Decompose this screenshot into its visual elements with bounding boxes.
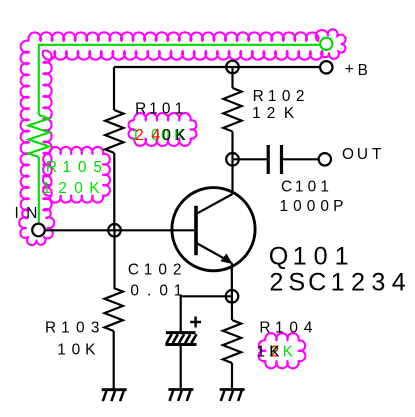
highlight cloud around 1K value <box>259 333 306 368</box>
resistor R102 body <box>223 88 241 132</box>
terminal top right green <box>320 38 332 50</box>
resistor R104 body <box>223 320 241 363</box>
svg-text:N: N <box>26 205 37 222</box>
wire R102 top <box>231 67 233 88</box>
terminal OUT <box>319 153 331 165</box>
wire base junction to R103 <box>113 230 115 288</box>
bypass cap bottom plate <box>165 343 196 346</box>
terminal +B <box>320 61 332 73</box>
svg-text:10K: 10K <box>57 341 96 358</box>
wire bypass cap to ground <box>180 346 182 390</box>
bypass cap plus sign <box>190 317 201 328</box>
wire green top horizontal <box>39 44 320 46</box>
ground under R103 <box>102 388 127 391</box>
wire +B rail <box>114 66 320 68</box>
wire R101 bottom <box>113 153 115 230</box>
svg-text:B: B <box>358 62 368 79</box>
capacitor C101 plate left <box>267 145 270 174</box>
svg-text:1: 1 <box>257 344 266 361</box>
node base junction <box>108 224 121 237</box>
wire emitter diagonal <box>197 244 231 263</box>
wire IN to base <box>45 229 194 231</box>
svg-text:2SC1234: 2SC1234 <box>269 268 405 296</box>
wire emitter vertical <box>231 263 233 321</box>
highlight cloud around 240K value <box>129 113 197 146</box>
bypass cap top plate <box>166 331 196 334</box>
wire collector diagonal <box>197 194 232 213</box>
wire R102 to collector node <box>231 132 233 195</box>
svg-text:I: I <box>14 205 18 222</box>
wire C101 to OUT <box>283 158 319 160</box>
wire R103 to ground <box>113 331 115 390</box>
ground under bypass cap <box>168 388 193 391</box>
wire green left vertical lower <box>38 157 40 224</box>
node collector junction <box>226 153 239 166</box>
svg-text:12K: 12K <box>252 105 295 122</box>
ground under R104 <box>220 388 245 391</box>
transistor emitter arrowhead <box>221 254 231 263</box>
svg-text:K: K <box>269 344 280 361</box>
highlight cloud around added wire net <box>19 29 345 245</box>
resistor R105 body <box>28 115 49 157</box>
wire green left vertical upper <box>38 44 40 115</box>
resistor R103 body <box>105 288 123 331</box>
highlight cloud around R105 labels <box>43 147 110 203</box>
wire collector node to C101 <box>233 158 267 160</box>
node junction on +B rail <box>226 61 239 74</box>
bypass cap hatched plate <box>167 334 172 343</box>
terminal IN <box>32 224 45 237</box>
svg-text:K: K <box>283 344 294 361</box>
node emitter junction <box>226 290 239 303</box>
svg-text:OUT: OUT <box>342 146 382 163</box>
wire R104 to ground <box>231 363 233 390</box>
resistor R101 body <box>105 110 123 153</box>
transistor base bar <box>194 206 198 255</box>
wire R101 top <box>113 67 115 110</box>
svg-text:+: + <box>345 61 354 78</box>
capacitor C101 plate right <box>280 145 283 174</box>
wire emitter to bypass cap <box>181 296 232 331</box>
transistor Q101 body circle <box>172 188 255 271</box>
